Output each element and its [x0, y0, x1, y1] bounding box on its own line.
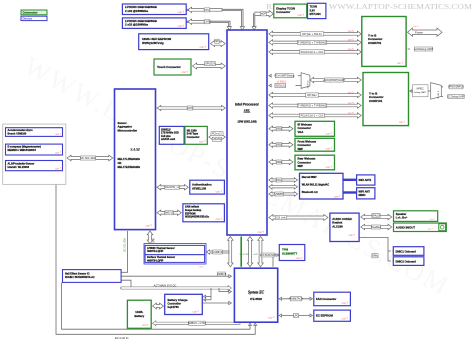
svg-text:con 5: con 5	[348, 31, 354, 33]
svg-text:8MP: 8MP	[298, 164, 304, 168]
svg-text:con ?: con ?	[216, 189, 223, 193]
svg-text:SAM: SAM	[130, 147, 141, 152]
svg-text:PWM&TACH: PWM&TACH	[289, 298, 304, 301]
svg-text:con ?: con ?	[258, 230, 265, 234]
svg-text:x(SATA): x(SATA)	[213, 138, 222, 141]
svg-text:VGA: VGA	[298, 130, 304, 134]
svg-text:IR Webcam: IR Webcam	[298, 123, 313, 127]
svg-text:con ?: con ?	[430, 219, 436, 221]
svg-text:MIMO: MIMO	[359, 193, 366, 197]
svg-text:Battery: Battery	[134, 314, 144, 318]
svg-text:X UH IC: X UH IC	[306, 81, 308, 89]
svg-text:PCIe x2 /: PCIe x2 /	[212, 133, 222, 136]
svg-text:SPKIO/DMPLG: SPKIO/DMPLG	[448, 87, 464, 89]
svg-text:Rear Webcam: Rear Webcam	[298, 157, 316, 161]
svg-text:con ?: con ?	[55, 134, 61, 136]
svg-text:+SMBUS: +SMBUS	[217, 274, 227, 276]
svg-text:con 5: con 5	[348, 113, 354, 115]
svg-text:con ?: con ?	[326, 132, 333, 136]
svg-text:con ?: con ?	[199, 267, 205, 269]
svg-text:FAN Connector: FAN Connector	[316, 297, 337, 301]
svg-text:OR: OR	[118, 161, 122, 165]
svg-text:TYPEDP02 + TYPE0402: TYPEDP02 + TYPE0402	[298, 40, 327, 44]
svg-text:WIFI ANT1: WIFI ANT1	[359, 178, 372, 182]
svg-text:ATMEL108: ATMEL108	[192, 186, 207, 190]
svg-text:SPI/I2C4: SPI/I2C4	[205, 62, 215, 65]
svg-text:2 x32 @1866Mbs: 2 x32 @1866Mbs	[125, 9, 148, 13]
svg-text:SMBUS + CTRL: SMBUS + CTRL	[188, 322, 207, 325]
svg-text:USB/BT: USB/BT	[275, 193, 284, 196]
svg-text:USB2: USB2	[276, 161, 283, 164]
svg-text:MEL1TLZ5E9AMG: MEL1TLZ5E9AMG	[118, 157, 140, 161]
svg-text:Front Webcam: Front Webcam	[298, 140, 317, 144]
svg-text:eDP: eDP	[261, 12, 266, 16]
svg-text:15W (SKL168): 15W (SKL168)	[237, 120, 256, 124]
svg-text:EC EEPROM: EC EEPROM	[316, 314, 333, 318]
svg-text:I2C SCL SDA: I2C SCL SDA	[80, 157, 96, 160]
svg-text:COM7131: COM7131	[369, 99, 383, 103]
svg-text:con ?: con ?	[428, 229, 434, 231]
svg-text:con ?: con ?	[55, 168, 61, 170]
svg-text:X UH IC: X UH IC	[437, 91, 439, 99]
svg-text:I2C5: I2C5	[187, 107, 193, 110]
svg-text:2 x32 @1866Mbs: 2 x32 @1866Mbs	[125, 23, 148, 27]
svg-text:Connector: Connector	[187, 135, 200, 139]
svg-text:Device: Device	[23, 17, 33, 21]
svg-text:mSATA card: mSATA card	[161, 138, 176, 141]
svg-text:con ?: con ?	[298, 13, 305, 17]
svg-text:AUDIO IN/OUT: AUDIO IN/OUT	[396, 226, 416, 230]
svg-text:Bluetooth 4.0: Bluetooth 4.0	[302, 191, 318, 194]
svg-text:con 1: con 1	[413, 26, 419, 28]
svg-text:ACT MAIN SYS DC: ACT MAIN SYS DC	[154, 284, 177, 288]
svg-text:Connector: Connector	[298, 126, 311, 130]
svg-text:MEMSIC / MMC34160PJ: MEMSIC / MMC34160PJ	[8, 148, 37, 152]
svg-text:PCLK/CLK-1 + CLK: PCLK/CLK-1 + CLK	[301, 50, 324, 54]
svg-text:Connector: Connector	[276, 10, 291, 14]
svg-text:I2S Link: I2S Link	[276, 216, 286, 219]
svg-text:con ?: con ?	[342, 317, 349, 321]
svg-text:ALS/Proximity-Sensor: ALS/Proximity-Sensor	[8, 161, 35, 165]
svg-text:con 5: con 5	[348, 92, 354, 94]
svg-text:SPI: SPI	[215, 40, 219, 43]
svg-text:con ?: con ?	[326, 147, 333, 151]
svg-text:+AC/Debug UART: +AC/Debug UART	[414, 48, 434, 51]
svg-text:ITE 8528: ITE 8528	[250, 297, 262, 301]
svg-text:ALC298: ALC298	[332, 224, 343, 228]
svg-text:con ?: con ?	[399, 121, 406, 124]
svg-text:DMIC2 Onboard: DMIC2 Onboard	[396, 260, 417, 264]
svg-text:E-compass (Magnetometer): E-compass (Magnetometer)	[8, 145, 42, 149]
svg-text:Intel Processor: Intel Processor	[235, 103, 260, 107]
svg-text:Marvell 8897: Marvell 8897	[302, 176, 317, 179]
svg-text:PCIe: PCIe	[276, 179, 282, 182]
svg-text:+SOC(PORT)UART: +SOC(PORT)UART	[323, 79, 346, 82]
svg-text:LPC BUS PWR: LPC BUS PWR	[260, 255, 276, 257]
svg-text:con ?: con ?	[193, 310, 200, 314]
svg-text:EC Debug UART: EC Debug UART	[447, 95, 465, 98]
svg-text:HP/EC: HP/EC	[417, 88, 424, 90]
svg-text:M2 2280: M2 2280	[187, 128, 197, 132]
svg-text:Bosch / BMI160: Bosch / BMI160	[8, 131, 27, 135]
svg-text:B-M Type: B-M Type	[187, 132, 199, 136]
svg-text:L+/-, R+/-: L+/-, R+/-	[396, 215, 408, 219]
svg-text:con ?: con ?	[326, 165, 333, 169]
svg-text:SWD US: SWD US	[164, 212, 174, 215]
svg-text:Debug UART: Debug UART	[414, 91, 427, 94]
svg-text:SPK/LR: SPK/LR	[372, 214, 381, 217]
svg-text:con ?: con ?	[268, 316, 275, 320]
svg-text:con ?: con ?	[349, 233, 356, 237]
svg-text:Sensor: Sensor	[118, 121, 127, 125]
svg-text:con ?: con ?	[397, 62, 404, 65]
svg-text:con ?: con ?	[199, 140, 206, 144]
svg-text:Microcontroller: Microcontroller	[118, 128, 138, 132]
svg-text:TYPEDP02 + TYPE0402: TYPEDP02 + TYPE0402	[298, 103, 327, 107]
svg-text:MEL1TEZ5E9AMG: MEL1TEZ5E9AMG	[118, 165, 140, 169]
svg-text:Aggregator: Aggregator	[118, 125, 132, 129]
svg-text:WIFI ANT: WIFI ANT	[359, 189, 371, 193]
svg-text:Power: Power	[415, 30, 423, 34]
svg-text:EC hold IC: EC hold IC	[115, 336, 129, 340]
svg-text:4990TII-LQFIP: 4990TII-LQFIP	[147, 250, 164, 253]
svg-text:eSPI: eSPI	[253, 254, 258, 256]
svg-text:con 5: con 5	[348, 40, 354, 42]
svg-text:con ?: con ?	[342, 301, 349, 305]
svg-text:MT7L394: MT7L394	[310, 12, 322, 16]
svg-text:USB2: USB2	[276, 144, 283, 147]
svg-text:con ?: con ?	[55, 153, 61, 155]
svg-text:Connector: Connector	[23, 11, 39, 15]
svg-text:Intersil / ISL29033: Intersil / ISL29033	[8, 165, 30, 169]
svg-text:4990TII-LQFIP: 4990TII-LQFIP	[147, 259, 164, 262]
svg-text:PCH UART/Debug: PCH UART/Debug	[274, 75, 295, 78]
svg-text:con 5: con 5	[348, 49, 354, 51]
svg-text:W25Q40EWUXIE+I2c: W25Q40EWUXIE+I2c	[185, 216, 210, 219]
svg-text:5MP: 5MP	[298, 147, 304, 151]
svg-text:con ?: con ?	[216, 217, 223, 221]
svg-text:W25Q128FVsig: W25Q128FVsig	[142, 41, 164, 45]
svg-text:CH B: CH B	[204, 21, 210, 24]
svg-text:USB2: USB2	[276, 128, 283, 131]
svg-text:con 5: con 5	[348, 103, 354, 105]
svg-text:WLAN 802.11 /b/g/n/AC: WLAN 802.11 /b/g/n/AC	[302, 183, 330, 186]
svg-text:con ?: con ?	[334, 194, 341, 198]
svg-text:ROHM / BU52054NVX-A2: ROHM / BU52054NVX-A2	[65, 276, 95, 279]
svg-text:con ?: con ?	[142, 323, 149, 327]
svg-text:con ?: con ?	[200, 45, 207, 49]
svg-text:con ?: con ?	[178, 10, 185, 14]
svg-text:con ?: con ?	[146, 224, 153, 228]
svg-text:SOC(x2:): SOC(x2:)	[275, 84, 285, 87]
svg-text:SKL: SKL	[244, 109, 250, 113]
svg-text:3.3V: 3.3V	[310, 8, 316, 12]
svg-text:+SMB I2: +SMB I2	[213, 251, 223, 254]
svg-text:COM4731: COM4731	[368, 41, 382, 45]
svg-text:Touch Connector: Touch Connector	[157, 65, 182, 69]
svg-text:DP (lan + SCLK): DP (lan + SCLK)	[302, 32, 321, 36]
svg-text:HeadSet: HeadSet	[371, 226, 381, 229]
svg-text:TCON: TCON	[310, 5, 317, 9]
svg-text:SMB: SMB	[154, 238, 156, 243]
svg-text:SLB9665TT: SLB9665TT	[282, 251, 298, 255]
svg-text:I2C SCL SDA: I2C SCL SDA	[124, 238, 127, 252]
svg-text:PCLK/CLK-1 + CLK: PCLK/CLK-1 + CLK	[301, 113, 324, 117]
svg-text:I2C/GPIO_x1: I2C/GPIO_x1	[165, 186, 180, 189]
svg-text:Speaker: Speaker	[396, 212, 406, 216]
svg-text:DMic: DMic	[372, 255, 378, 258]
svg-text:DMIC1 Onboard: DMIC1 Onboard	[396, 249, 417, 253]
svg-text:DP flam: DP flam	[307, 93, 316, 97]
svg-text:bq24780: bq24780	[168, 305, 180, 309]
svg-text:con ?: con ?	[296, 256, 303, 260]
svg-text:con ?: con ?	[182, 70, 189, 74]
svg-text:System EC: System EC	[248, 291, 265, 295]
svg-text:CH A: CH A	[204, 9, 210, 12]
svg-text:con ?: con ?	[178, 24, 185, 28]
svg-text:Connector: Connector	[298, 160, 311, 164]
svg-text:LPC: LPC	[294, 314, 299, 317]
svg-text:Connector: Connector	[298, 143, 311, 147]
